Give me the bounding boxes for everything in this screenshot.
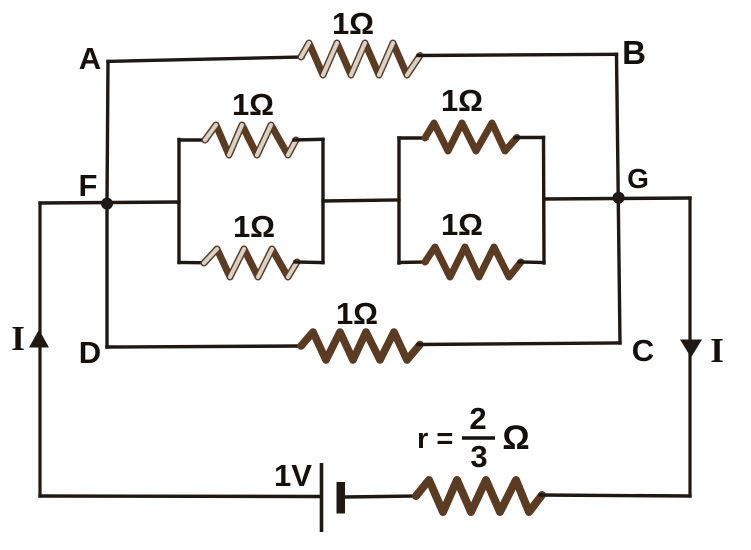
wire: r to bottom right corner [540, 495, 690, 496]
svg-text:G: G [627, 163, 649, 194]
wire: B vertical down through G to C [617, 54, 621, 343]
wire: bottom left to battery [40, 494, 319, 498]
wire: D to R6 [107, 346, 303, 347]
svg-text:C: C [632, 333, 654, 368]
wire: battery to r [345, 496, 418, 497]
svg-text:3: 3 [470, 439, 487, 474]
current arrow I downward (right) [680, 340, 702, 358]
battery B1 short plate (negative) [337, 482, 346, 514]
wire: left outer vertical [38, 203, 41, 496]
svg-text:1V: 1V [274, 458, 312, 493]
svg-text:I: I [710, 331, 724, 370]
wire: box2 top-left stub [399, 136, 427, 139]
wire: box1 bottom-right stub [295, 260, 323, 264]
wire: A vertical down to F [107, 61, 108, 203]
current arrow I upward (left) [29, 330, 49, 348]
node F junction dot [101, 198, 113, 210]
wire: box2 to G to right rail [544, 198, 690, 199]
wire: box1 top-right stub [294, 138, 323, 142]
wire: box1 bottom-left stub [179, 261, 206, 265]
wire: left rail to F to box1 [40, 202, 179, 203]
wire: F vertical down to D [105, 203, 108, 347]
resistor r internal 2/3 ohm [416, 480, 542, 512]
wire: box1 top-left stub [179, 138, 207, 141]
wire: top wire A to R1 [108, 57, 303, 61]
svg-text:D: D [79, 335, 101, 370]
svg-text:r =: r = [417, 423, 453, 455]
wire: box2 right vertical [542, 138, 546, 264]
svg-text:1Ω: 1Ω [336, 296, 378, 331]
wire: right outer vertical [688, 198, 691, 496]
resistor R2 1ohm (box1 top) [205, 125, 296, 155]
svg-text:Ω: Ω [502, 419, 529, 457]
svg-text:2: 2 [469, 401, 486, 436]
svg-text:I: I [11, 319, 25, 358]
label r = 2/3 ohm [417, 401, 530, 474]
svg-text:A: A [79, 41, 101, 76]
svg-text:1Ω: 1Ω [232, 87, 274, 122]
wire: R1 to B [418, 54, 617, 55]
svg-text:B: B [622, 34, 646, 71]
wire: box2 bottom-right stub [519, 260, 544, 264]
svg-text:F: F [79, 168, 98, 203]
svg-text:1Ω: 1Ω [441, 207, 483, 242]
resistor R3 1ohm (box1 bottom) [204, 249, 297, 277]
wire: box2 top-right stub [515, 136, 544, 139]
battery B1 long plate (positive) [320, 463, 324, 532]
wire: box1 to box2 link [323, 200, 399, 201]
svg-text:1Ω: 1Ω [233, 209, 275, 244]
wire: box1 left vertical [177, 140, 180, 263]
wire: R6 to C [418, 343, 620, 345]
svg-text:1Ω: 1Ω [332, 6, 374, 41]
node G junction dot [613, 192, 625, 204]
resistor R1 1ohm (A-B top) [301, 43, 420, 75]
svg-text:1Ω: 1Ω [441, 83, 483, 118]
resistor R6 1ohm (D-C) [301, 332, 420, 360]
resistor R4 1ohm (box2 top) [425, 123, 517, 151]
wire: box1 right vertical [321, 139, 324, 262]
resistor R5 1ohm (box2 bottom) [425, 247, 521, 277]
wire: box2 bottom-left stub [399, 260, 427, 264]
wire: box2 left vertical [397, 138, 400, 263]
